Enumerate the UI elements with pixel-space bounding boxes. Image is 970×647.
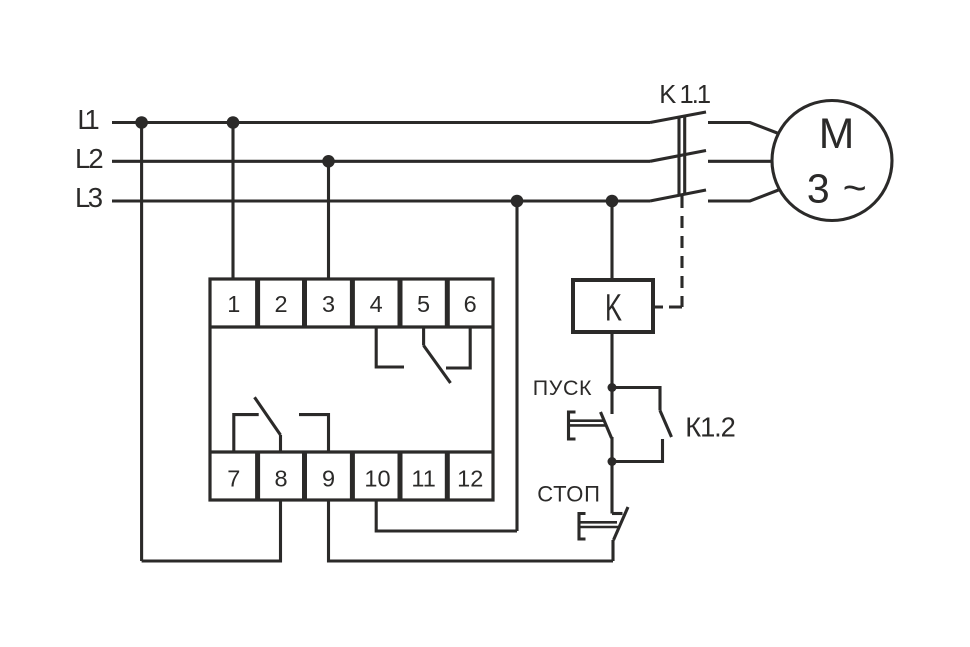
- svg-text:11: 11: [411, 466, 435, 492]
- svg-text:1: 1: [227, 291, 240, 317]
- svg-text:12: 12: [457, 466, 483, 492]
- svg-text:4: 4: [370, 291, 383, 317]
- svg-text:5: 5: [417, 291, 430, 317]
- svg-text:K: K: [605, 286, 622, 328]
- svg-text:3: 3: [807, 166, 830, 212]
- svg-text:K 1.1: K 1.1: [659, 81, 711, 109]
- svg-text:L1: L1: [77, 104, 99, 135]
- svg-text:К1.2: К1.2: [685, 411, 736, 442]
- svg-text:~: ~: [843, 164, 867, 210]
- svg-text:2: 2: [274, 291, 287, 317]
- svg-text:9: 9: [322, 466, 335, 492]
- svg-text:6: 6: [464, 291, 477, 317]
- svg-text:M: M: [819, 110, 855, 158]
- svg-text:7: 7: [227, 466, 240, 492]
- svg-text:L2: L2: [75, 143, 104, 174]
- svg-text:ПУСК: ПУСК: [533, 376, 592, 400]
- svg-text:10: 10: [364, 466, 390, 492]
- svg-text:8: 8: [274, 466, 287, 492]
- svg-text:СТОП: СТОП: [537, 481, 600, 506]
- svg-text:3: 3: [322, 291, 335, 317]
- svg-text:L3: L3: [75, 182, 103, 213]
